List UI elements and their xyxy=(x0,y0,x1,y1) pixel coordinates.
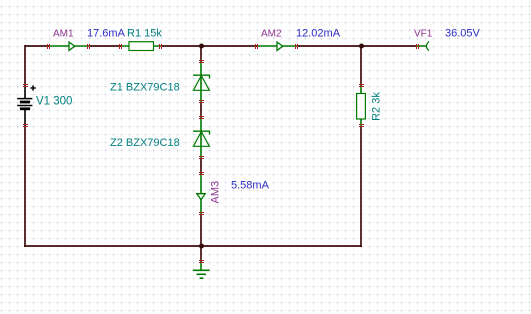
node C junction dot xyxy=(199,244,204,249)
svg-text:5.58mA: 5.58mA xyxy=(231,180,270,192)
pin ticks R2 xyxy=(359,84,364,127)
node A junction dot xyxy=(199,44,204,49)
pin ticks V1 xyxy=(23,84,28,127)
value 12.02mA xyxy=(296,28,341,40)
wire AM2 to node B xyxy=(297,45,361,47)
ground xyxy=(193,262,210,278)
svg-text:36.05V: 36.05V xyxy=(445,28,481,40)
wire node B to R2 xyxy=(360,45,362,86)
svg-text:R2 3k: R2 3k xyxy=(370,92,382,121)
svg-text:VF1: VF1 xyxy=(414,29,433,40)
pin ticks Z2 xyxy=(199,116,204,159)
pin tick VF1 xyxy=(416,44,419,49)
wire bottom horizontal xyxy=(24,245,362,247)
ammeter AM1 xyxy=(49,42,89,51)
wire R2 to bottom right corner xyxy=(360,126,362,247)
wire Z1 to Z2 xyxy=(200,102,202,118)
pin ticks R1 xyxy=(119,44,162,49)
svg-text:R1 15k: R1 15k xyxy=(127,28,162,40)
svg-text:AM1: AM1 xyxy=(53,29,74,40)
svg-text:V1 300: V1 300 xyxy=(36,96,72,108)
wire node C to ground stub xyxy=(200,246,202,262)
svg-text:Z2 BZX79C18: Z2 BZX79C18 xyxy=(110,137,180,149)
voltage pin VF1 xyxy=(417,41,429,50)
zener diode Z1 xyxy=(193,62,210,102)
pin ticks Z1 xyxy=(199,60,204,103)
label R1 15k xyxy=(127,28,162,40)
pin ticks AM2 xyxy=(255,44,298,49)
wire Z2 to AM3 xyxy=(200,158,202,174)
svg-text:AM2: AM2 xyxy=(261,29,282,40)
label AM3 (rotated) xyxy=(209,181,221,204)
wire AM3 to node C xyxy=(200,214,202,246)
node B junction dot xyxy=(359,44,364,49)
label AM1 xyxy=(53,29,74,40)
wire node B to VF1 xyxy=(361,45,417,47)
label VF1 xyxy=(414,29,433,40)
pin ticks AM3 xyxy=(199,172,204,215)
svg-text:AM3: AM3 xyxy=(209,181,221,204)
label R2 3k (rotated) xyxy=(370,92,382,121)
battery V1 xyxy=(17,85,36,126)
ammeter AM2 xyxy=(257,42,297,51)
pin tick ground xyxy=(199,260,204,263)
label V1 300 xyxy=(36,96,72,108)
wire node A to Z1 xyxy=(200,46,202,62)
wire top-left horizontal (battery + node to AM1) xyxy=(25,45,49,47)
wire node A to AM2 xyxy=(201,45,257,47)
value 17.6mA xyxy=(87,28,126,40)
label Z1 BZX79C18 xyxy=(110,81,180,93)
label Z2 BZX79C18 xyxy=(110,137,180,149)
svg-text:Z1 BZX79C18: Z1 BZX79C18 xyxy=(110,81,180,93)
resistor R2 xyxy=(357,86,366,126)
wire R1 to node A xyxy=(161,45,201,47)
pin ticks AM1 xyxy=(47,44,90,49)
zener diode Z2 xyxy=(193,118,210,158)
value 5.58mA xyxy=(231,180,270,192)
svg-text:17.6mA: 17.6mA xyxy=(87,28,126,40)
resistor R1 xyxy=(121,42,161,51)
value 36.05V xyxy=(445,28,481,40)
wire AM1 to R1 xyxy=(89,45,121,47)
svg-text:12.02mA: 12.02mA xyxy=(296,28,341,40)
label AM2 xyxy=(261,29,282,40)
wire left rail (battery branch) xyxy=(24,45,26,247)
ammeter AM3 xyxy=(197,174,205,214)
